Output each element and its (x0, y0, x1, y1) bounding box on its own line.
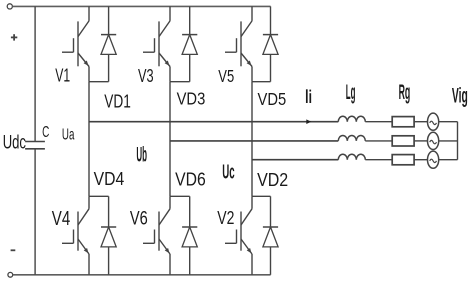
wire junction upper pair leg x=170.0 (170, 81, 190, 83)
wire resistor to source Ub (414, 140, 427, 142)
wire phase leg x=252.0 (251, 82, 253, 197)
diode VD5 (upper freewheel diode) (270, 6, 272, 34)
svg-text:VD6: VD6 (175, 170, 206, 190)
wire right bus (457, 122, 459, 160)
wire phase Uc to grid (252, 159, 338, 161)
node N (DC- terminal) (8, 272, 13, 277)
wire source to bus Uc (439, 159, 458, 161)
svg-text:Ua: Ua (62, 126, 75, 144)
svg-text:Udc: Udc (3, 132, 26, 154)
wire junction lower pair leg x=170.0 (170, 195, 190, 197)
wire junction lower pair leg x=89.0 (89, 195, 109, 197)
svg-text:V2: V2 (217, 208, 234, 228)
wire phase leg x=170.0 (169, 82, 171, 197)
svg-text:VD1: VD1 (104, 92, 131, 112)
svg-text:V3: V3 (138, 66, 154, 86)
transistor V2 (lower IGBT leg) (251, 196, 253, 209)
wire inductor to resistor Ua (365, 121, 392, 123)
transistor V1 (upper IGBT leg) (88, 6, 90, 21)
wire resistor to source Ua (414, 121, 427, 123)
diode VD6 (lower freewheel diode) (189, 196, 191, 227)
transistor V5 (upper IGBT leg) (251, 6, 253, 21)
wire bottom DC- rail (13, 274, 271, 276)
transistor V6 (lower IGBT leg) (169, 196, 171, 209)
wire phase Ub to grid (170, 140, 338, 142)
svg-text:Uc: Uc (222, 161, 234, 183)
resistor Rg phase Ub (392, 136, 414, 146)
svg-text:Vig: Vig (452, 85, 468, 108)
arrow current Ii (306, 119, 311, 124)
diode VD1 (upper freewheel diode) (108, 6, 110, 34)
svg-text:V6: V6 (130, 208, 148, 229)
svg-text:Rg: Rg (399, 81, 411, 104)
wire top DC+ rail (12, 5, 270, 7)
diode VD2 (lower freewheel diode) (270, 196, 272, 227)
wire DC+ to capacitor (34, 6, 36, 141)
AC source Vig phase Ub (428, 132, 439, 149)
svg-text:V4: V4 (52, 207, 70, 230)
capacitor C (25, 141, 45, 143)
diode VD3 (upper freewheel diode) (189, 6, 191, 34)
label Ii (306, 89, 308, 103)
inductor Lg phase Uc (338, 154, 365, 159)
wire phase leg x=89.0 (88, 82, 90, 197)
resistor Rg phase Uc (392, 155, 414, 165)
wire inductor to resistor Uc (365, 159, 392, 161)
resistor Rg phase Ua (392, 117, 414, 127)
wire junction lower pair leg x=252.0 (252, 195, 271, 197)
svg-text:C: C (42, 124, 49, 141)
node P (DC+ terminal) (7, 4, 12, 9)
minus polarity mark (11, 249, 16, 251)
svg-text:VD2: VD2 (257, 169, 288, 190)
svg-text:VD5: VD5 (258, 89, 287, 109)
svg-text:Lg: Lg (346, 81, 356, 104)
transistor V3 (upper IGBT leg) (169, 6, 171, 21)
AC source Vig phase Ua (428, 113, 439, 130)
wire source to bus Ub (439, 140, 458, 142)
svg-text:VD4: VD4 (94, 169, 125, 189)
wire phase Ua to grid (89, 121, 338, 123)
wire capacitor to DC- (34, 149, 36, 275)
wire inductor to resistor Ub (365, 140, 392, 142)
svg-text:Ub: Ub (136, 141, 147, 166)
inductor Lg phase Ub (338, 135, 365, 140)
inductor Lg phase Ua (338, 116, 365, 121)
wire junction upper pair leg x=252.0 (252, 81, 271, 83)
svg-text:V5: V5 (218, 66, 234, 86)
wire resistor to source Uc (414, 159, 427, 161)
plus polarity mark (11, 36, 17, 38)
transistor V4 (lower IGBT leg) (88, 196, 90, 209)
svg-text:VD3: VD3 (177, 89, 206, 109)
wire junction upper pair leg x=89.0 (89, 81, 109, 83)
wire source to bus Ua (439, 121, 458, 123)
AC source Vig phase Uc (428, 151, 439, 168)
diode VD4 (lower freewheel diode) (108, 196, 110, 227)
svg-text:V1: V1 (55, 66, 70, 86)
